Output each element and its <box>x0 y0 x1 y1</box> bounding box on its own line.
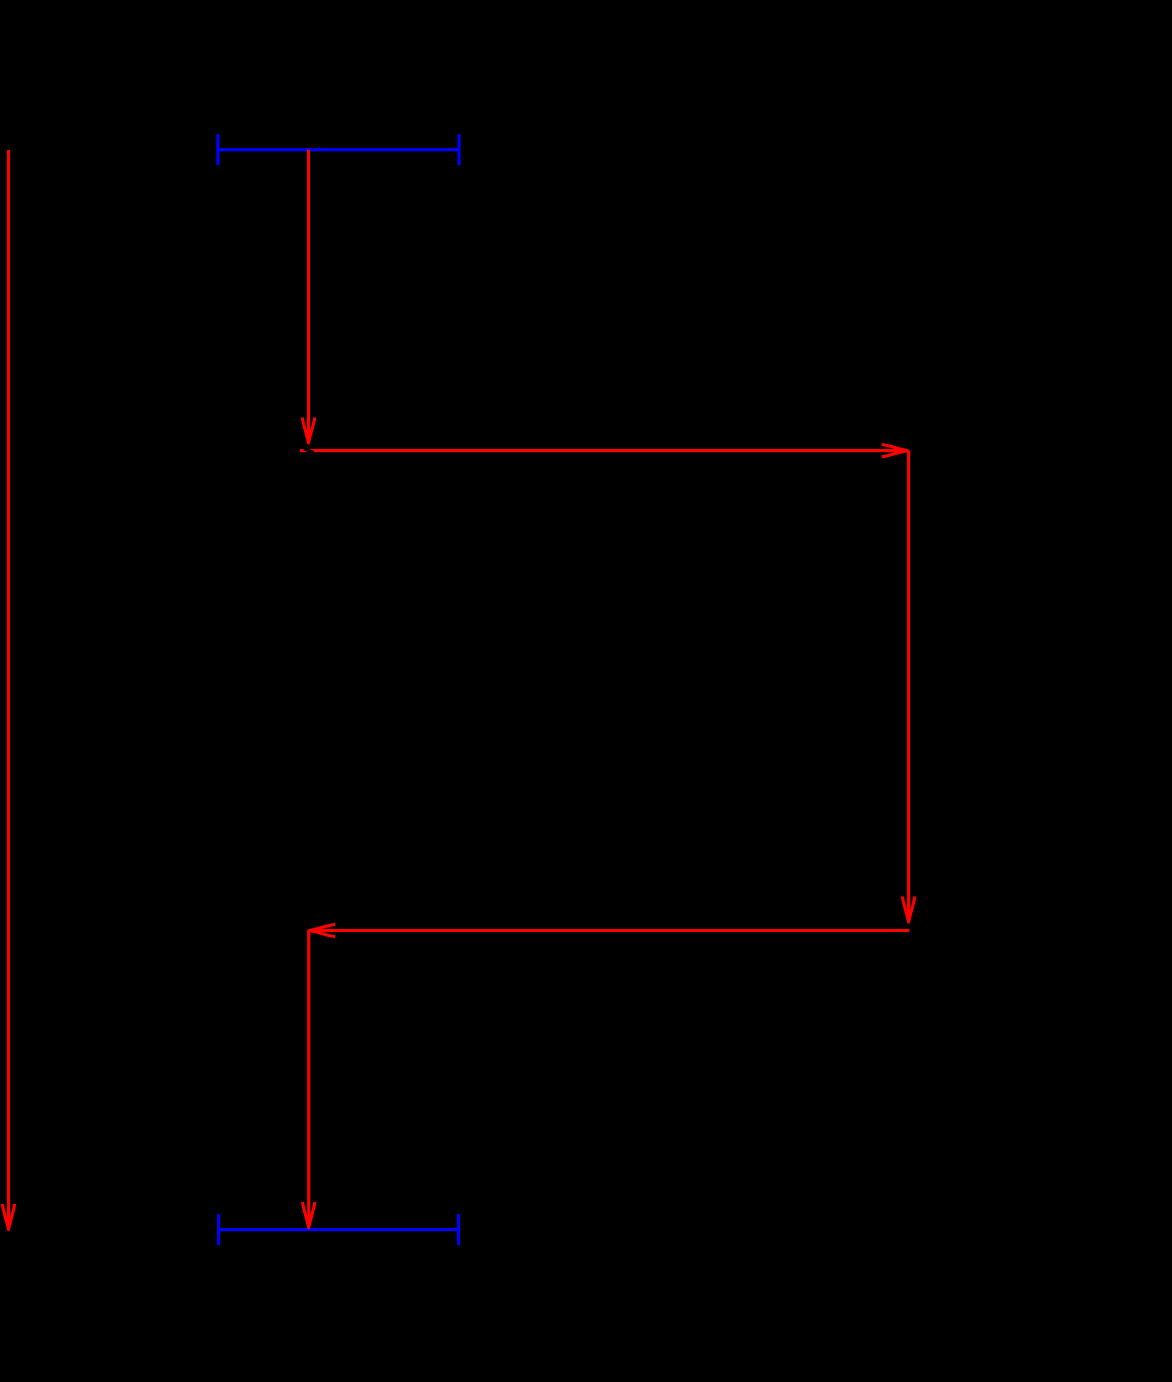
red arrow L : long vertical arrow at far left <box>2 150 14 1230</box>
black ink overlap notch on arrow 2 near its start <box>304 449 314 452</box>
red arrow 4 : horizontal, pointing left <box>310 924 910 936</box>
red arrow 1 : from top blue bar down <box>302 150 314 443</box>
red arrow 2 : horizontal, pointing right <box>300 445 907 457</box>
blue extent bar top (I-beam) <box>218 134 459 165</box>
blue extent bar bottom (I-beam) <box>219 1214 459 1245</box>
red arrow 3 : vertical at right, pointing down <box>903 450 915 922</box>
red arrow 5 : vertical down to bottom blue bar <box>303 930 315 1228</box>
